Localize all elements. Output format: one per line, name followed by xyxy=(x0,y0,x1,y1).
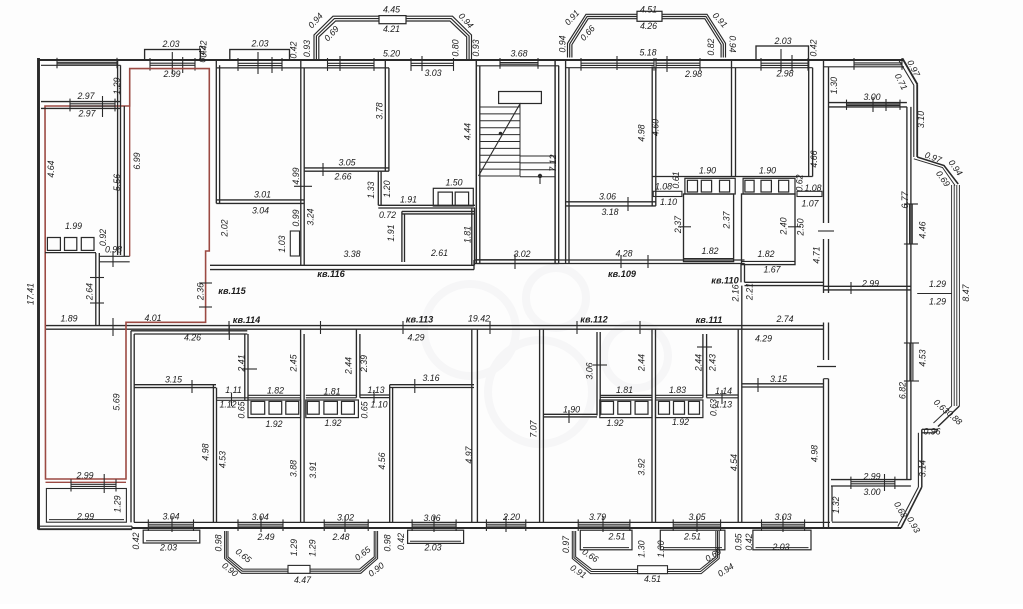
unit kv.115 red outline xyxy=(45,69,209,479)
svg-text:7.12: 7.12 xyxy=(548,154,558,171)
window: red unit bottom 2.99 xyxy=(71,474,116,493)
svg-text:2.37: 2.37 xyxy=(721,210,731,229)
room: bathroom kv110 (1.82) xyxy=(742,194,802,265)
svg-text:3.02: 3.02 xyxy=(337,512,354,522)
wall: kv114 left (x131) xyxy=(131,331,134,523)
balcony 2.03 under kv111b xyxy=(753,530,811,550)
svg-text:1.10: 1.10 xyxy=(660,197,677,207)
wall: kv111 bathroom bottom xyxy=(656,395,703,398)
svg-text:0.98: 0.98 xyxy=(213,534,223,551)
svg-text:3.88: 3.88 xyxy=(288,460,298,477)
svg-text:3.04: 3.04 xyxy=(162,511,179,521)
wall: below stairwell xyxy=(476,254,558,269)
svg-text:4.98: 4.98 xyxy=(200,443,210,460)
svg-text:3.04: 3.04 xyxy=(252,512,269,522)
svg-text:3.06: 3.06 xyxy=(599,191,616,201)
svg-text:2.03: 2.03 xyxy=(773,36,791,46)
svg-text:1.30: 1.30 xyxy=(656,540,666,557)
wall: hall lintel xyxy=(294,185,312,187)
wall: main right wall upper xyxy=(824,60,829,223)
wall: bottom exterior main line xyxy=(132,526,901,529)
unit number labels xyxy=(218,269,739,325)
watermark xyxy=(424,268,668,444)
svg-text:2.43: 2.43 xyxy=(707,354,717,372)
svg-text:4.29: 4.29 xyxy=(755,333,772,343)
wall: kv111 closet wall xyxy=(697,334,712,398)
window: wing bottom 2.99 xyxy=(851,474,895,491)
wall: stairwell top inner xyxy=(476,65,559,67)
svg-text:0.62: 0.62 xyxy=(794,174,804,191)
boxes: 1.92 row kv113 xyxy=(306,400,359,418)
svg-text:1.90: 1.90 xyxy=(563,404,580,414)
svg-text:2.02: 2.02 xyxy=(219,219,229,237)
wall: stairwell left xyxy=(476,60,480,264)
wall: 1.29/4.64 right wall xyxy=(118,60,121,255)
svg-text:2.37: 2.37 xyxy=(673,215,683,234)
svg-text:1.83: 1.83 xyxy=(669,385,686,395)
svg-text:1.81: 1.81 xyxy=(462,226,472,243)
svg-text:0.42: 0.42 xyxy=(288,41,298,58)
svg-text:кв.112: кв.112 xyxy=(580,314,608,324)
svg-text:кв.114: кв.114 xyxy=(233,315,260,325)
svg-text:4.64: 4.64 xyxy=(46,160,56,177)
svg-text:3.00: 3.00 xyxy=(863,487,880,497)
wall: kv112/111 divider xyxy=(652,329,656,522)
window: stairwell window 3.68 xyxy=(500,58,538,69)
svg-text:4.46: 4.46 xyxy=(917,221,927,238)
svg-text:2.39: 2.39 xyxy=(359,355,369,373)
window: kv116 room2 window (5.20 left) xyxy=(328,58,375,71)
wall: kv116 room1 left xyxy=(216,60,219,203)
svg-text:2.61: 2.61 xyxy=(430,248,448,258)
wall: kv110 roomC right xyxy=(809,60,813,177)
svg-text:3.92: 3.92 xyxy=(636,458,646,475)
room: bathroom kv109 (1.82) xyxy=(678,194,734,262)
svg-text:2.40: 2.40 xyxy=(778,217,788,235)
svg-text:2.99: 2.99 xyxy=(162,69,180,79)
svg-text:2.45: 2.45 xyxy=(288,354,298,372)
svg-text:0.42: 0.42 xyxy=(198,40,208,57)
wall: kv113/112 divider xyxy=(472,329,478,522)
svg-text:кв.115: кв.115 xyxy=(218,286,246,296)
wall: 1.91 wall (y205) xyxy=(378,205,475,208)
ticks: 2.36 dim xyxy=(199,283,212,307)
wall: closet 1.20 wall xyxy=(378,171,381,205)
svg-text:0.80: 0.80 xyxy=(450,39,460,56)
wall: kv112 7.07 right xyxy=(540,329,544,522)
wall: top inner face left room xyxy=(41,64,121,66)
svg-text:0.82: 0.82 xyxy=(706,38,716,55)
svg-text:0.97: 0.97 xyxy=(561,535,571,553)
wall: top exterior main line xyxy=(38,59,904,61)
svg-text:1.13: 1.13 xyxy=(367,385,384,395)
svg-text:4.01: 4.01 xyxy=(144,313,161,323)
wall: corridor lower xyxy=(45,326,824,330)
svg-text:кв.110: кв.110 xyxy=(711,275,739,285)
ticks: bottom windows xyxy=(172,516,783,532)
svg-text:4.28: 4.28 xyxy=(615,248,632,258)
window: bottom 3.05 xyxy=(673,519,720,531)
svg-text:кв.109: кв.109 xyxy=(608,269,637,279)
svg-text:1.89: 1.89 xyxy=(60,313,77,323)
svg-text:1.08: 1.08 xyxy=(655,181,672,191)
wall: 1.29 room bottom (2.97 window wall) xyxy=(41,102,121,109)
wall: kv114 bathroom bottom xyxy=(248,395,301,398)
wall: kv114 3.15 wall xyxy=(134,380,216,393)
svg-text:3.78: 3.78 xyxy=(374,102,384,119)
svg-text:2.97: 2.97 xyxy=(76,91,95,101)
window: kv116 room1 window xyxy=(238,58,282,71)
wall: kv114 1.12 wall xyxy=(217,393,249,406)
svg-text:2.99: 2.99 xyxy=(75,470,93,480)
balcony 2.51 under kv112b xyxy=(580,530,632,550)
svg-text:1.30: 1.30 xyxy=(636,540,646,557)
svg-text:3.15: 3.15 xyxy=(165,374,182,384)
svg-text:1.82: 1.82 xyxy=(757,249,774,259)
wall: kv113 closet wall xyxy=(356,329,360,397)
window: right 8.47 band xyxy=(952,185,960,406)
window: kv110 window 2.98 xyxy=(761,58,808,71)
window: bottom 3.79 xyxy=(578,519,630,531)
svg-text:2.64: 2.64 xyxy=(84,283,94,301)
balcony 2.03 (kv116) xyxy=(230,50,290,75)
svg-text:7.07: 7.07 xyxy=(528,419,538,437)
window: bottom 3.02 xyxy=(324,519,368,531)
svg-text:2.41: 2.41 xyxy=(236,354,246,372)
wall: hall top band xyxy=(99,251,129,267)
boxes: 1.92 row kv111 xyxy=(656,400,703,418)
svg-text:0.63: 0.63 xyxy=(708,399,718,416)
svg-text:0.94: 0.94 xyxy=(557,35,567,52)
wall: kv114 closet right xyxy=(242,334,257,400)
svg-text:1.67: 1.67 xyxy=(763,264,781,274)
svg-text:5.18: 5.18 xyxy=(639,47,656,57)
svg-text:1.30: 1.30 xyxy=(829,77,839,94)
ticks: 5.20 windows xyxy=(340,56,422,71)
svg-text:3.14: 3.14 xyxy=(918,460,928,477)
wall: kv114 room left xyxy=(213,385,216,523)
wall: 3.00 window wall xyxy=(829,103,907,107)
wall: corridor upper (kv109 side) xyxy=(474,260,745,270)
svg-text:1.92: 1.92 xyxy=(324,418,341,428)
wall: kv115 hall left wall xyxy=(124,106,129,256)
boxes: duct bar left xyxy=(653,191,682,196)
svg-text:0.65: 0.65 xyxy=(359,401,369,418)
svg-text:4.71: 4.71 xyxy=(811,246,821,263)
svg-text:1.81: 1.81 xyxy=(616,385,633,395)
window: bottom 3.03 xyxy=(762,519,805,531)
svg-text:4.98: 4.98 xyxy=(636,124,646,141)
wall: wing lower right wall xyxy=(907,290,911,480)
svg-text:1.29: 1.29 xyxy=(929,296,946,306)
svg-text:1.29: 1.29 xyxy=(112,77,122,94)
svg-text:2.51: 2.51 xyxy=(607,531,625,541)
bay window top-right 4.51 band xyxy=(568,14,726,57)
svg-text:6.82: 6.82 xyxy=(898,382,908,399)
stairs: treads xyxy=(480,104,555,177)
svg-text:4.53: 4.53 xyxy=(217,451,227,468)
svg-text:3.06: 3.06 xyxy=(584,362,594,379)
wall: kv112 closet bottom xyxy=(600,395,652,397)
svg-text:4.51: 4.51 xyxy=(644,574,661,584)
wall: wing room right xyxy=(907,107,911,290)
svg-text:4.21: 4.21 xyxy=(383,24,400,34)
svg-text:3.05: 3.05 xyxy=(688,512,705,522)
svg-text:1.82: 1.82 xyxy=(267,385,284,395)
boxes: duct bar right xyxy=(797,191,822,196)
svg-text:кв.113: кв.113 xyxy=(406,314,433,324)
wall: kv113 bathroom bottom xyxy=(306,395,357,398)
svg-text:4.56: 4.56 xyxy=(377,452,387,469)
wall: wing bottom window wall 2.99/3.00 xyxy=(831,480,911,486)
svg-text:2.16: 2.16 xyxy=(730,284,740,302)
svg-text:0.65: 0.65 xyxy=(236,401,246,418)
svg-text:3.03: 3.03 xyxy=(774,512,791,522)
svg-text:3.18: 3.18 xyxy=(601,207,618,217)
svg-text:1.20: 1.20 xyxy=(382,180,392,197)
svg-text:5.20: 5.20 xyxy=(383,48,400,58)
svg-text:1.92: 1.92 xyxy=(672,417,689,427)
wall: right wing top inner xyxy=(824,66,904,68)
svg-text:1.07: 1.07 xyxy=(801,198,819,208)
wall: kv109 A/B divider xyxy=(652,67,656,206)
svg-text:4.47: 4.47 xyxy=(294,575,312,585)
svg-text:4.26: 4.26 xyxy=(640,21,657,31)
svg-text:3.79: 3.79 xyxy=(589,512,606,522)
wall: kv113 room left xyxy=(390,385,393,523)
svg-text:2.74: 2.74 xyxy=(775,314,793,324)
svg-text:1.29: 1.29 xyxy=(289,539,299,556)
svg-text:1.32: 1.32 xyxy=(831,496,841,513)
svg-text:1.10: 1.10 xyxy=(370,399,387,409)
svg-text:17.41: 17.41 xyxy=(25,283,35,305)
window: bottom 3.06 xyxy=(412,519,456,531)
svg-text:1.14: 1.14 xyxy=(715,386,732,396)
svg-text:0.99: 0.99 xyxy=(291,209,301,226)
svg-text:0.96: 0.96 xyxy=(923,426,940,436)
wall: main right wall mid xyxy=(818,231,834,293)
svg-text:4.99: 4.99 xyxy=(291,167,301,184)
svg-text:4.54: 4.54 xyxy=(729,454,739,471)
boxes: 1.90 row kv110 xyxy=(743,178,795,194)
svg-text:2.03: 2.03 xyxy=(161,39,179,49)
svg-text:6.77: 6.77 xyxy=(900,190,910,208)
window: kv116 room2 window (5.20 right) xyxy=(411,58,454,71)
svg-text:4.97: 4.97 xyxy=(464,445,474,463)
tick: 2.64 door xyxy=(90,278,104,304)
svg-text:5.69: 5.69 xyxy=(111,393,121,410)
wall: kv116 room1 top inner xyxy=(216,67,304,69)
svg-text:1.90: 1.90 xyxy=(759,165,776,175)
svg-text:19.42: 19.42 xyxy=(468,313,490,323)
svg-text:1.91: 1.91 xyxy=(386,224,396,241)
svg-text:0.94: 0.94 xyxy=(728,35,738,52)
svg-text:0.95: 0.95 xyxy=(733,533,743,550)
svg-text:2.36: 2.36 xyxy=(195,283,205,301)
svg-text:3.06: 3.06 xyxy=(423,513,440,523)
svg-text:0.72: 0.72 xyxy=(379,210,396,220)
svg-text:3.68: 3.68 xyxy=(510,48,527,58)
svg-text:2.44: 2.44 xyxy=(343,357,353,375)
svg-text:4.29: 4.29 xyxy=(407,332,424,342)
svg-text:2.97: 2.97 xyxy=(77,108,96,118)
svg-text:1.12: 1.12 xyxy=(219,399,236,409)
wall: 2.61/stair gap wall xyxy=(472,208,475,265)
wall: right step slants xyxy=(914,157,958,186)
svg-text:1.08: 1.08 xyxy=(804,183,821,193)
svg-text:1.29: 1.29 xyxy=(113,495,123,512)
wall: kv113 closet bottom xyxy=(360,390,390,403)
svg-text:1.99: 1.99 xyxy=(65,221,82,231)
svg-text:3.38: 3.38 xyxy=(343,249,360,259)
balcony: red unit loggia xyxy=(46,489,126,523)
wall: main right wall bottom xyxy=(817,367,836,528)
balcony 2.03 (red unit) xyxy=(145,50,201,75)
ticks: corridor lower wall xyxy=(229,321,640,334)
svg-text:0.98: 0.98 xyxy=(105,244,122,254)
svg-text:0.93: 0.93 xyxy=(471,39,481,56)
svg-text:4.45: 4.45 xyxy=(383,4,400,14)
svg-text:2.03: 2.03 xyxy=(423,542,441,552)
svg-text:4.26: 4.26 xyxy=(184,332,201,342)
svg-text:1.81: 1.81 xyxy=(323,386,340,396)
svg-text:0.42: 0.42 xyxy=(744,533,754,550)
wall: wing room bottom xyxy=(824,282,911,294)
svg-text:2.66: 2.66 xyxy=(333,171,351,181)
svg-text:0.98: 0.98 xyxy=(382,534,392,551)
wall: stairwell right xyxy=(555,60,559,264)
svg-text:4.66: 4.66 xyxy=(809,150,819,167)
wall: kv111/110 divider xyxy=(738,286,742,523)
balcony 2.51 under kv111a xyxy=(660,530,725,550)
svg-text:2.03: 2.03 xyxy=(771,542,789,552)
wall: kv109 rooms top inner xyxy=(566,67,813,69)
wall: top-right corner slant xyxy=(899,59,918,86)
svg-text:3.00: 3.00 xyxy=(863,92,880,102)
wall: 3.05/2.66 wall xyxy=(304,163,389,176)
wall: corridor upper (kv116 side) xyxy=(210,265,474,269)
window: 4.46 vertical xyxy=(904,204,918,244)
svg-text:0.61: 0.61 xyxy=(671,171,681,188)
svg-text:2.03: 2.03 xyxy=(250,38,268,48)
svg-text:4.98: 4.98 xyxy=(810,445,820,462)
svg-text:3.02: 3.02 xyxy=(513,249,530,259)
wall: 1.89 room top xyxy=(45,252,96,254)
bay window top-center divider xyxy=(379,16,406,24)
wall: kv109 B/C divider xyxy=(732,60,736,177)
balcony 2.03 under kv112 xyxy=(408,530,464,543)
svg-text:0.42: 0.42 xyxy=(131,532,141,549)
svg-text:кв.111: кв.111 xyxy=(696,315,723,325)
wall: kv116 central xyxy=(301,60,304,265)
window: kv109 window 5.18b xyxy=(656,58,700,71)
wall: rooms B,C bottom xyxy=(652,176,812,178)
svg-text:0.42: 0.42 xyxy=(396,533,406,550)
svg-text:1.11: 1.11 xyxy=(225,385,242,395)
svg-text:2.50: 2.50 xyxy=(795,218,805,236)
svg-text:1.33: 1.33 xyxy=(366,181,376,198)
svg-text:1.29: 1.29 xyxy=(307,539,317,556)
tick: 4.01 wall tick xyxy=(112,318,114,336)
boxes: 1.92 row kv112 xyxy=(600,400,652,418)
wall: kv109 roomA bottom xyxy=(566,197,656,211)
wall: kv116 room2 top inner xyxy=(304,67,389,69)
svg-text:3.16: 3.16 xyxy=(422,373,439,383)
wall: kv114 top room top xyxy=(131,326,247,340)
svg-text:2.99: 2.99 xyxy=(862,471,880,481)
svg-text:2.99: 2.99 xyxy=(76,511,94,521)
wall: kv112 niche wall xyxy=(593,332,607,415)
wall: kv111 3.15 wall xyxy=(742,378,824,392)
bay window top-center 4.45 band xyxy=(314,16,472,59)
svg-text:2.44: 2.44 xyxy=(636,354,646,372)
svg-text:3.03: 3.03 xyxy=(424,68,441,78)
wall: 0.96 step xyxy=(922,429,938,433)
stairs: up-line xyxy=(479,103,543,184)
wall: kv111 entry wall xyxy=(707,390,738,404)
wall: 1.89 room right wall xyxy=(96,253,100,326)
boxes: 1.92 row kv114 xyxy=(248,400,301,418)
svg-text:3.04: 3.04 xyxy=(252,205,269,215)
window: 4.53 vertical xyxy=(904,343,919,381)
svg-text:0.93: 0.93 xyxy=(302,40,312,57)
svg-text:2.99: 2.99 xyxy=(861,278,879,288)
balcony 2.03 under kv114 xyxy=(143,530,200,543)
wall: kv109 roomA left xyxy=(566,60,569,264)
tick: kv109 door xyxy=(621,255,648,268)
svg-text:4.44: 4.44 xyxy=(462,123,472,140)
boxes: 1.99 window boxes xyxy=(47,238,94,251)
window: bottom 3.04a xyxy=(148,519,193,531)
wall: kv116 room2 right xyxy=(385,60,389,171)
svg-text:2.03: 2.03 xyxy=(159,542,177,552)
svg-text:2.48: 2.48 xyxy=(331,532,349,542)
svg-text:1.92: 1.92 xyxy=(265,419,282,429)
balcony: bay 4.47 xyxy=(225,531,378,573)
wall: wing loggia strip xyxy=(832,486,898,522)
svg-text:1.82: 1.82 xyxy=(701,246,718,256)
svg-text:6.99: 6.99 xyxy=(132,152,142,169)
wall: bottom inner faces xyxy=(134,521,830,523)
svg-text:2.20: 2.20 xyxy=(502,512,520,522)
bay window top-right divider xyxy=(637,11,662,21)
svg-text:3.91: 3.91 xyxy=(308,461,318,478)
svg-text:1.50: 1.50 xyxy=(445,177,462,187)
wall: bottom-right corner slant xyxy=(898,487,922,528)
boxes: 1.90 row kv109 xyxy=(685,178,735,194)
svg-text:3.10: 3.10 xyxy=(916,111,926,128)
balcony 2.03 (kv110 top) xyxy=(756,46,809,72)
svg-text:2.98: 2.98 xyxy=(775,68,793,78)
svg-text:4.51: 4.51 xyxy=(640,4,657,14)
svg-text:2.21: 2.21 xyxy=(744,283,754,301)
svg-text:4.60: 4.60 xyxy=(650,119,660,136)
wall: bottom exterior left section xyxy=(38,526,132,529)
wall: kv110 corridor notch xyxy=(741,264,824,286)
door: kv116 hall door leaf xyxy=(290,231,299,256)
svg-text:кв.116: кв.116 xyxy=(317,269,345,279)
stairs: landing xyxy=(499,92,542,104)
loggia divider 1.29/1.29 xyxy=(917,293,951,295)
window: 3.00 top xyxy=(847,97,901,112)
window: red unit top window 2.99 xyxy=(150,58,195,71)
window: 2.97 xyxy=(70,96,115,117)
ticks: 5.18 window xyxy=(617,56,667,72)
balcony 4.51 divider xyxy=(638,566,668,574)
window: kv109 window 5.18a xyxy=(581,58,654,71)
wall: right outer lower xyxy=(918,429,921,487)
svg-text:1.91: 1.91 xyxy=(400,194,417,204)
